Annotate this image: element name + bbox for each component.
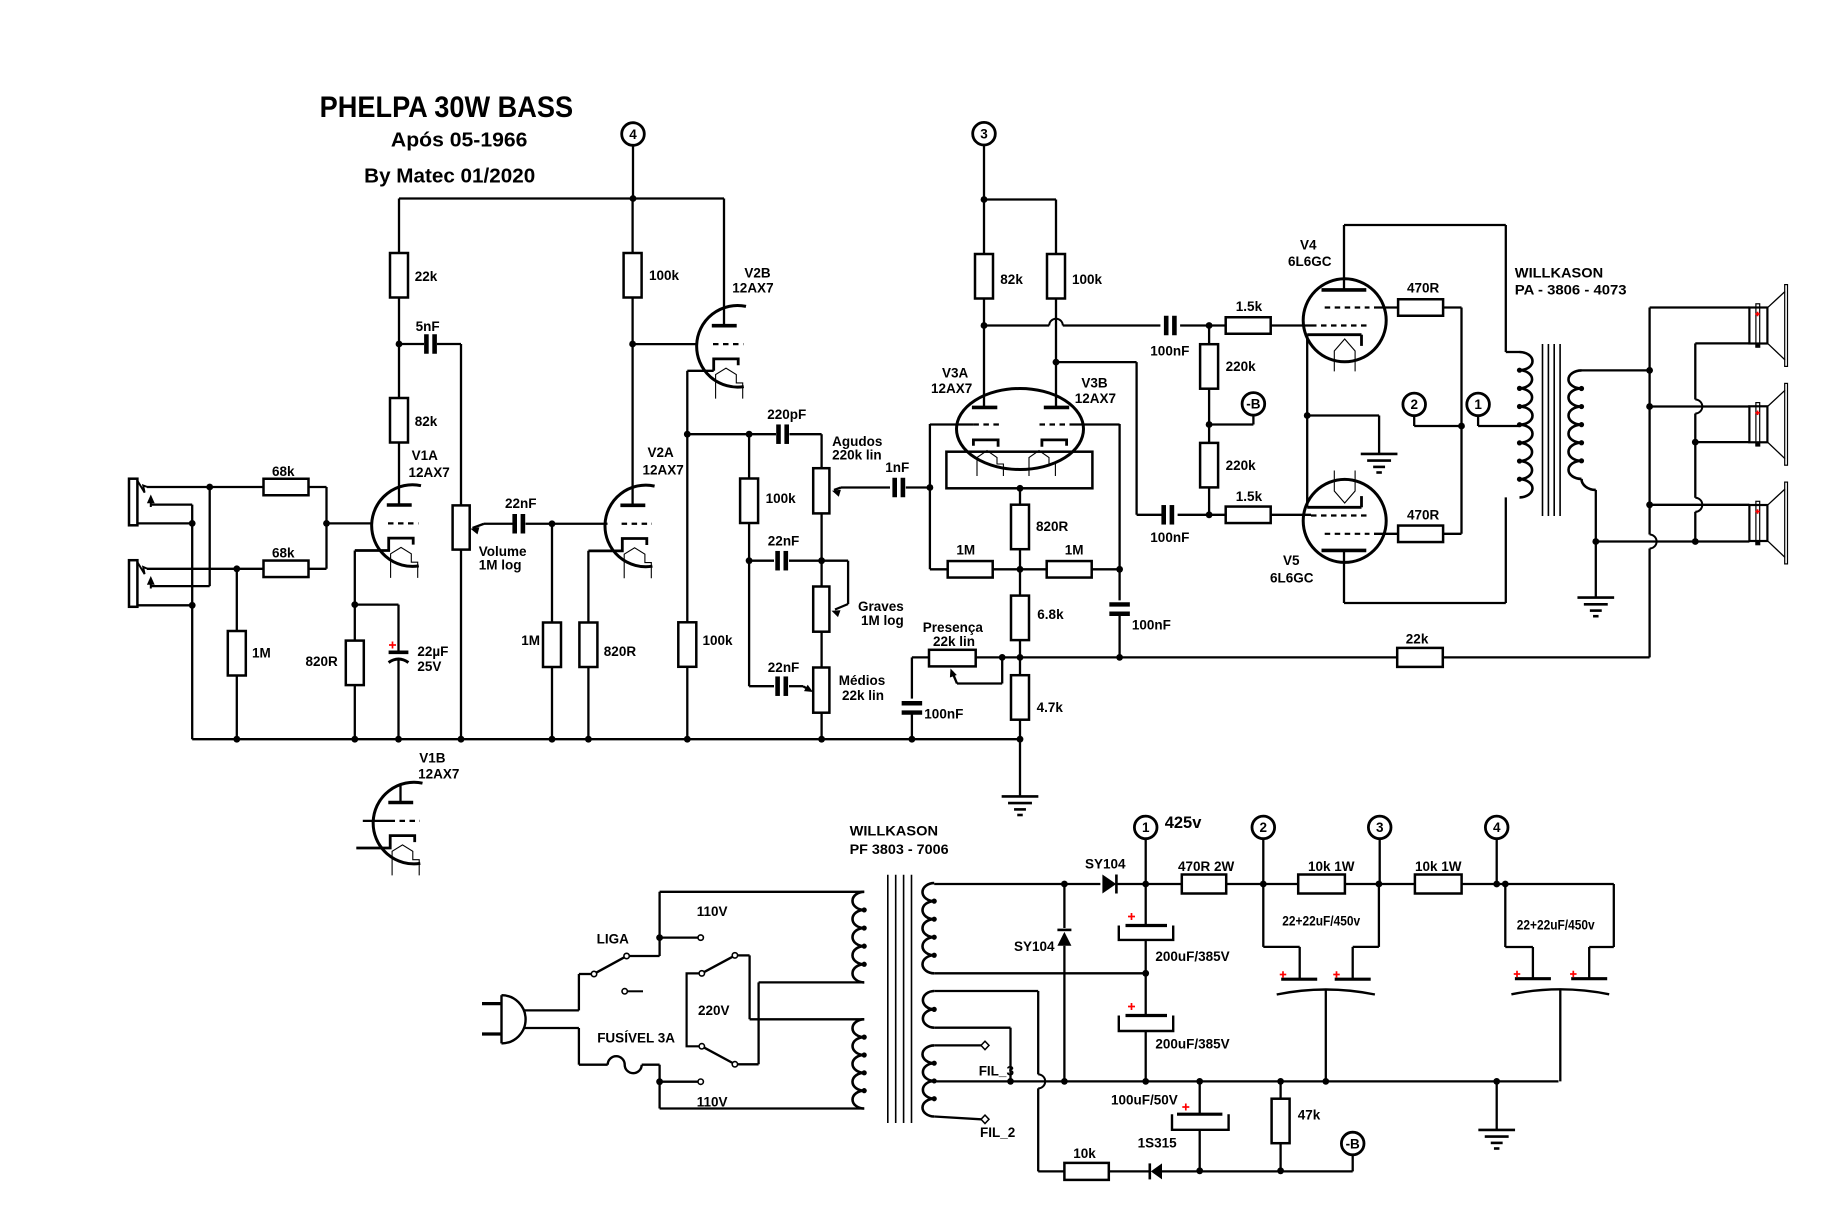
wire plug lower <box>525 1028 608 1065</box>
svg-text:1M: 1M <box>956 543 975 558</box>
wire 22uF pair2 to ground <box>1559 990 1561 1082</box>
wire graves bottom <box>820 632 822 668</box>
resistor 10k bias <box>1064 1146 1108 1180</box>
wire plug upper <box>525 974 592 1010</box>
wire 100uF bottom <box>1199 1130 1201 1171</box>
label V4 <box>1288 238 1332 270</box>
junction B+ bus / node4 <box>630 195 637 202</box>
svg-text:25V: 25V <box>417 659 441 674</box>
wire J1 switch line <box>151 503 192 505</box>
svg-text:6L6GC: 6L6GC <box>1288 254 1332 269</box>
wire rail 10k-10k <box>1345 883 1415 885</box>
svg-text:Médios: Médios <box>839 673 886 688</box>
node 2 PSU <box>1252 816 1275 839</box>
junction 100k tone tap <box>746 431 753 438</box>
jack J2 tip spring <box>137 562 147 574</box>
wire OT secondary top <box>1582 369 1650 371</box>
junction 820R V2A bus <box>585 736 592 743</box>
wire bias winding down <box>1038 1088 1064 1171</box>
resistor 10k 1W b <box>1415 859 1462 894</box>
junction 4.7k bus <box>1017 736 1024 743</box>
wire 220k lower bottom <box>1208 487 1210 514</box>
wire speaker hot hop <box>1650 535 1657 549</box>
wire sp1 return <box>1695 342 1749 344</box>
junction cathodes <box>1304 412 1311 419</box>
label 200uF-1 <box>1155 949 1229 964</box>
wire J1 sleeve <box>137 522 192 524</box>
svg-text:220k: 220k <box>1226 458 1257 473</box>
wire 100nF top to 1.5k <box>1180 324 1209 326</box>
wire 10k to diode <box>1109 1170 1150 1172</box>
svg-text:3: 3 <box>1376 820 1384 835</box>
ground preamp <box>1002 796 1039 815</box>
mains plug <box>482 995 526 1043</box>
V5 cathode <box>1307 496 1361 507</box>
triode V1A grid <box>388 522 418 524</box>
wire 100k follower bottom <box>686 667 688 739</box>
wire coupling top right <box>1063 324 1161 326</box>
svg-text:-B: -B <box>1346 1136 1360 1151</box>
wire bus to ground <box>1019 739 1021 796</box>
resistor 1M input <box>228 631 271 676</box>
contact 110V top <box>698 935 703 940</box>
wire rail 470R-10k <box>1226 883 1298 885</box>
wire node1 to 200uF-1 <box>1145 884 1147 926</box>
svg-text:V5: V5 <box>1283 553 1300 568</box>
22uF polarity + <box>389 642 396 649</box>
wire J2 tip line <box>147 568 264 570</box>
junction bias rail 47k <box>1277 1167 1284 1174</box>
resistor 470R V5 <box>1398 508 1443 543</box>
speaker SP1 <box>1749 285 1787 367</box>
triode V3A grid <box>930 423 1003 425</box>
wire 82k to V1A plate <box>398 344 400 398</box>
wire presenca left <box>912 657 929 698</box>
speaker SP2 <box>1749 383 1787 465</box>
capacitor 22nF volume <box>505 496 537 534</box>
wire 1.5k V4 left <box>1209 324 1226 326</box>
capacitor 5nF <box>416 319 440 354</box>
wire selector bottom <box>738 982 759 1064</box>
wire 1nF to V3A grid <box>906 486 930 488</box>
wire -B lead <box>1209 415 1253 424</box>
label V1A <box>409 448 450 480</box>
junction agudos/22nF <box>818 557 825 564</box>
svg-text:Presença: Presença <box>923 620 984 635</box>
capacitor 22nF tone2 <box>768 660 800 696</box>
svg-text:1M: 1M <box>521 633 540 648</box>
jack J2 switch arrow <box>147 576 155 589</box>
PT heater winding <box>922 1045 936 1116</box>
label FIL_3 <box>979 1064 1015 1079</box>
V4 control grid <box>1311 324 1370 326</box>
wire 200uF-2 top <box>1145 973 1147 1015</box>
junction 22k/5nF/82k <box>396 341 403 348</box>
svg-text:PF 3803 - 7006: PF 3803 - 7006 <box>850 842 950 857</box>
wire 1.5k V5 right <box>1271 514 1311 516</box>
svg-text:12AX7: 12AX7 <box>931 381 972 396</box>
svg-text:220V: 220V <box>698 1003 730 1018</box>
wire 100k to V3B plate <box>1055 299 1057 408</box>
junction 22uF bus <box>395 736 402 743</box>
potentiometer Medios 22k lin <box>813 668 885 713</box>
triode V2B plate <box>712 324 737 328</box>
ground PSU <box>1478 1130 1515 1149</box>
label 1S315 <box>1138 1136 1178 1151</box>
wire 82k to V3A plate <box>983 299 985 408</box>
wire ground drop left <box>191 505 193 740</box>
junction node4 rail <box>1493 881 1500 888</box>
svg-text:FIL_3: FIL_3 <box>979 1064 1015 1079</box>
wire ground rail left <box>934 1080 1558 1082</box>
wire diode to node1 <box>1116 883 1181 885</box>
junction V1A cathode <box>351 601 358 608</box>
triode V1B plate <box>388 785 413 803</box>
svg-text:200uF/385V: 200uF/385V <box>1155 1037 1229 1052</box>
svg-text:220k lin: 220k lin <box>832 448 882 463</box>
wire node2 lead <box>1414 416 1461 426</box>
potentiometer Agudos 220k lin <box>813 434 882 513</box>
triode V1A cathode <box>355 538 413 550</box>
resistor 1.5k V5 <box>1226 489 1271 523</box>
junction NFB cap row <box>1116 654 1123 661</box>
capacitor 22uF plate- <box>389 659 409 663</box>
wire 6.8k to junction <box>1019 640 1021 657</box>
wire rail right <box>1462 883 1614 885</box>
wire node1 lead <box>1478 416 1519 426</box>
junction J1 tip <box>206 484 213 491</box>
wire 1.5k V4 right <box>1271 324 1311 326</box>
V5 plate <box>1322 550 1506 603</box>
ground OT secondary <box>1577 598 1614 617</box>
capacitor 100nF bottom <box>1150 505 1189 545</box>
wire coupling top left <box>984 324 1049 326</box>
svg-text:12AX7: 12AX7 <box>409 465 450 480</box>
tube V5 envelope <box>1303 479 1386 562</box>
triode V3A cathode <box>973 440 998 447</box>
triode V2A grid <box>622 523 652 525</box>
label V1B <box>418 750 459 781</box>
triode V2A plate <box>620 504 645 508</box>
svg-text:1: 1 <box>1142 820 1150 835</box>
svg-text:LIGA: LIGA <box>597 932 629 947</box>
junction V3A plate/coupling <box>981 322 988 329</box>
selector 220V bracket <box>687 973 700 1046</box>
junction 47k ground rail <box>1277 1078 1284 1085</box>
wire primary mid upper <box>759 981 865 983</box>
wire 1M-A left <box>930 568 948 570</box>
tube V4 envelope <box>1303 279 1386 362</box>
wire 100k V2B chain <box>686 434 688 622</box>
wire SY104-2 vertical <box>1063 884 1065 1081</box>
junction lower 1.5k node <box>1206 511 1213 518</box>
wire OT primary top <box>1506 225 1520 352</box>
svg-text:PA - 3806 - 4073: PA - 3806 - 4073 <box>1515 283 1627 298</box>
resistor 100k V2A load <box>624 253 680 298</box>
label 220V <box>698 1003 730 1018</box>
svg-text:22+22uF/450v: 22+22uF/450v <box>1517 918 1595 933</box>
wire 4.7k to bus <box>1019 720 1021 740</box>
resistor 100k V3B <box>1047 254 1103 299</box>
junction V2A plate / V2B grid <box>629 341 636 348</box>
capacitor 100nF NFB <box>1109 604 1171 632</box>
V5 control grid <box>1311 514 1370 516</box>
junction presence wiper <box>999 654 1006 661</box>
svg-text:820R: 820R <box>604 644 637 659</box>
svg-text:82k: 82k <box>1000 272 1023 287</box>
wire presence row <box>976 656 1120 658</box>
presenca wiper arrow <box>950 657 1002 683</box>
wire 1nF node to 1M-A <box>929 488 931 570</box>
wire B+ bus top <box>399 197 724 199</box>
potentiometer Presenca 22k lin <box>923 620 984 666</box>
triode V1A envelope <box>372 485 421 567</box>
wire to 100nF bottom <box>1137 514 1163 516</box>
200uF-1 polarity <box>1128 913 1135 920</box>
svg-text:FUSÍVEL 3A: FUSÍVEL 3A <box>597 1031 675 1046</box>
junction 22nF-1 left <box>746 557 753 564</box>
wire J2 sleeve <box>137 604 192 606</box>
svg-text:PHELPA 30W BASS: PHELPA 30W BASS <box>320 91 574 124</box>
junction node1 rail <box>1142 881 1149 888</box>
junction cappair1 ground rail <box>1322 1078 1329 1085</box>
label 110V bottom <box>697 1095 728 1110</box>
svg-text:12AX7: 12AX7 <box>643 463 684 478</box>
svg-text:22k: 22k <box>1406 632 1429 647</box>
triode V1A heater <box>391 547 418 578</box>
junction secondary hot <box>1646 367 1653 374</box>
wire node4 PSU lead <box>1496 839 1498 884</box>
wire J2 tip to 1M <box>236 569 238 631</box>
node 3 PSU <box>1368 816 1391 839</box>
wire left chain down <box>748 561 750 687</box>
200uF-2 polarity <box>1128 1003 1135 1010</box>
svg-text:470R 2W: 470R 2W <box>1178 859 1235 874</box>
sp2 feed hop <box>1695 400 1702 414</box>
resistor 470R 2W <box>1178 859 1235 894</box>
wire 22nF-1 to graves wiper <box>789 561 848 604</box>
wire sp3 feed <box>1650 504 1750 506</box>
junction 100k follower bus <box>684 736 691 743</box>
wire V4 cathode down <box>1306 335 1308 508</box>
junction 200uF-2 ground <box>1142 1078 1149 1085</box>
wire agudos bottom <box>820 513 822 560</box>
wire 820R V1A top <box>354 605 356 641</box>
resistor 47k <box>1272 1099 1321 1144</box>
junction SY104-2 ground rail <box>1061 1078 1068 1085</box>
wire cathode junction to cap <box>355 605 399 653</box>
junction cap2 feed <box>1502 881 1509 888</box>
junction 1M center <box>1017 566 1024 573</box>
svg-text:10k 1W: 10k 1W <box>1415 859 1462 874</box>
wire medios bottom <box>820 713 822 740</box>
wire V1A cathode down <box>354 551 356 605</box>
label 22+22uF pair1 <box>1282 914 1360 929</box>
wire preamp ground bus <box>192 738 1020 740</box>
svg-text:10k 1W: 10k 1W <box>1308 859 1355 874</box>
svg-text:470R: 470R <box>1407 281 1440 296</box>
resistor 100k follower <box>678 622 733 667</box>
resistor 820R V1A <box>306 641 364 686</box>
svg-text:1M: 1M <box>252 646 271 661</box>
wire 220k lower top <box>1208 425 1210 443</box>
PT HV secondary winding <box>923 883 937 973</box>
junction sp2 tap <box>1646 403 1653 410</box>
wire 100k top lead <box>1055 200 1057 255</box>
wire 22uF pair2 left feed <box>1505 884 1533 979</box>
svg-text:100nF: 100nF <box>924 707 963 722</box>
svg-text:22nF: 22nF <box>768 534 800 549</box>
wire 220k upper bottom <box>1208 389 1210 425</box>
OT primary winding <box>1517 352 1533 497</box>
capacitor 22uF-2a plus plate <box>1515 977 1551 980</box>
switch LIGA <box>591 932 629 977</box>
22uF-1b polarity <box>1333 971 1340 978</box>
wire volume bottom <box>460 550 462 740</box>
junction screens <box>1458 423 1465 430</box>
contact 110V bottom <box>698 1079 703 1084</box>
junction HV- node <box>1142 970 1149 977</box>
wire 110V bottom tap <box>660 1081 698 1083</box>
selector contact L1 <box>699 971 704 976</box>
junction 1M V2A bus <box>549 736 556 743</box>
svg-text:V4: V4 <box>1300 238 1317 253</box>
svg-text:470R: 470R <box>1407 508 1440 523</box>
wire V2B grid <box>633 343 697 345</box>
junction bias bottom ground <box>1007 1078 1014 1085</box>
V4 cathode <box>1307 335 1361 346</box>
wire hop over V3B plate <box>1049 319 1063 326</box>
svg-text:200uF/385V: 200uF/385V <box>1155 949 1229 964</box>
label V2A <box>643 445 684 478</box>
junction SY104-2 tap <box>1061 881 1068 888</box>
capacitor 100nF top <box>1150 316 1189 359</box>
V5 screen grid <box>1325 533 1399 535</box>
wire 820R V3 bottom <box>1019 549 1021 569</box>
capacitor 200uF-1 cup <box>1119 926 1173 940</box>
junction J2 sleeve <box>189 602 196 609</box>
wire 200uF-1 bottom <box>1145 940 1147 973</box>
svg-text:Após 05-1966: Após 05-1966 <box>391 128 528 151</box>
label power transformer <box>850 824 950 858</box>
junction volume bus <box>458 736 465 743</box>
junction J1 sleeve <box>189 520 196 527</box>
junction presence row <box>1017 654 1024 661</box>
wire J1 tip to J2 switch <box>209 487 211 586</box>
wire junction to 4.7k <box>1019 657 1021 675</box>
svg-text:22nF: 22nF <box>768 660 800 675</box>
wire grid V1A <box>327 522 372 524</box>
wire V2A cathode down <box>587 551 589 623</box>
ground output stage <box>1361 454 1398 473</box>
svg-text:22nF: 22nF <box>505 496 537 511</box>
wire FIL_3 lead <box>934 1044 981 1046</box>
junction node3 rail <box>1376 881 1383 888</box>
PT bias winding <box>923 991 937 1028</box>
diode 1S315 <box>1150 1163 1162 1179</box>
capacitor 22uF-1b plus plate <box>1335 978 1371 981</box>
svg-text:1: 1 <box>1474 397 1482 412</box>
wire PSU ground drop <box>1496 1081 1498 1130</box>
terminal FIL_2 <box>981 1115 989 1123</box>
label SY104 shunt <box>1014 939 1055 954</box>
V4 screen grid <box>1325 306 1399 308</box>
volume wiper arrow <box>471 524 515 535</box>
wire selector top to rail <box>738 955 750 1019</box>
fuse FUSIVEL 3A <box>597 1031 675 1074</box>
subtitle author <box>364 164 535 187</box>
diode SY104 shunt <box>1057 930 1071 946</box>
svg-text:By Matec 01/2020: By Matec 01/2020 <box>364 164 535 187</box>
svg-text:3: 3 <box>980 127 988 142</box>
svg-text:110V: 110V <box>697 904 728 919</box>
OT secondary winding <box>1568 370 1584 479</box>
junction J2 tip <box>233 565 240 572</box>
selector blade top <box>704 957 733 972</box>
junction 22nF/1M <box>549 520 556 527</box>
wire HV- rail <box>934 972 1145 974</box>
capacitor 22nF tone1 <box>768 534 800 571</box>
capacitor 200uF-2 plus plate <box>1126 1014 1168 1017</box>
wire bias rail <box>1162 1170 1353 1172</box>
svg-text:6L6GC: 6L6GC <box>1270 571 1314 586</box>
junction sp2 return <box>1692 439 1699 446</box>
wire 22uF pair1 to ground <box>1325 990 1327 1082</box>
svg-text:68k: 68k <box>272 464 295 479</box>
triode V2B envelope <box>697 305 746 387</box>
resistor 68k lower <box>264 546 309 578</box>
wire sp1 feed <box>1650 306 1750 308</box>
wire 100uF top <box>1199 1081 1201 1114</box>
triode V3B grid <box>1040 423 1120 425</box>
label SY104 top <box>1085 857 1126 872</box>
resistor 1M V2A grid <box>521 623 561 668</box>
V5 beam plates <box>1334 471 1355 504</box>
wire V3B plate right <box>1056 362 1137 515</box>
triode V2B cathode <box>714 359 739 371</box>
junction -B row <box>1206 421 1213 428</box>
junction V3 cathode <box>1017 485 1024 492</box>
wire to 220pF <box>687 433 776 435</box>
wire 110V top tap <box>660 936 698 938</box>
svg-text:V2B: V2B <box>744 266 771 281</box>
svg-text:820R: 820R <box>306 654 339 669</box>
svg-text:4.7k: 4.7k <box>1037 700 1064 715</box>
svg-text:100uF/50V: 100uF/50V <box>1111 1093 1178 1108</box>
junction 1nF node <box>927 484 934 491</box>
graves wiper arrow <box>832 604 849 617</box>
junction node2 rail <box>1260 881 1267 888</box>
wire 22uF pair1 right feed <box>1353 884 1379 979</box>
wire cathode to ground <box>1307 416 1379 454</box>
PT primary winding upper <box>852 892 866 983</box>
triode V2B grid <box>713 343 743 345</box>
wire J1 tip line <box>147 486 264 488</box>
svg-text:100nF: 100nF <box>1150 344 1189 359</box>
wire 1M to bus <box>236 676 238 740</box>
label 100uF/50V <box>1111 1093 1178 1108</box>
wire to 22nF-2 <box>749 685 774 687</box>
capacitor 22uF pair2 common plate <box>1511 989 1609 994</box>
svg-text:82k: 82k <box>415 414 438 429</box>
wire 100k to 22nF-1 <box>749 560 774 562</box>
svg-text:820R: 820R <box>1036 519 1069 534</box>
wire 68k outputs join <box>309 487 327 569</box>
22uF-2a polarity <box>1514 971 1521 978</box>
junction 100uF ground rail <box>1196 1078 1203 1085</box>
svg-text:1nF: 1nF <box>885 460 909 475</box>
jack J1 tip spring <box>137 481 147 493</box>
